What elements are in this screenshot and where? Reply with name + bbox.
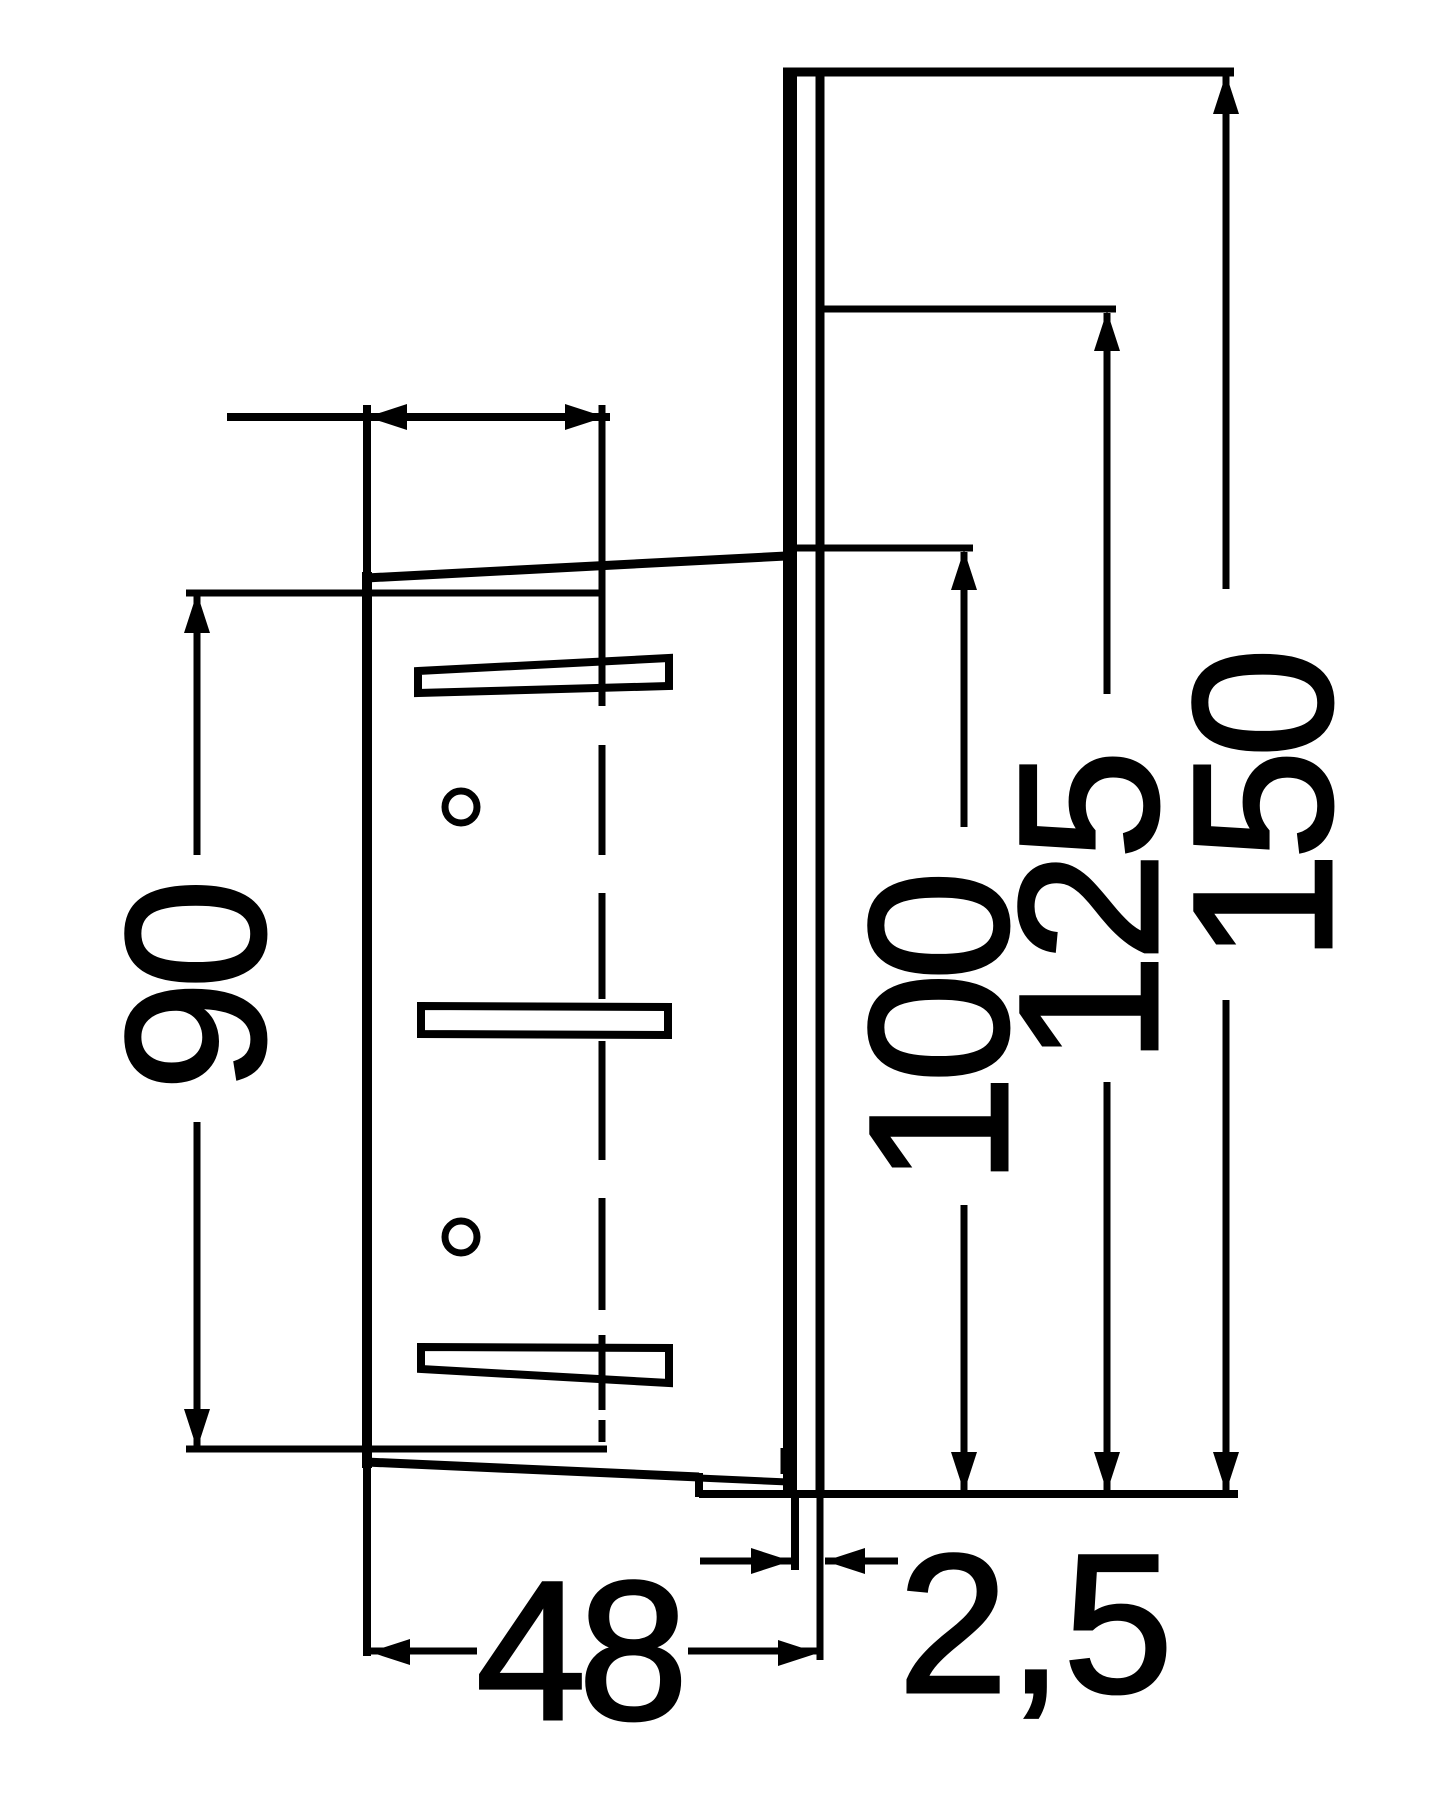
svg-text:150: 150 xyxy=(1152,655,1373,962)
svg-text:90: 90 xyxy=(85,886,306,1091)
svg-text:2,5: 2,5 xyxy=(898,1513,1173,1734)
svg-text:48: 48 xyxy=(476,1540,680,1761)
